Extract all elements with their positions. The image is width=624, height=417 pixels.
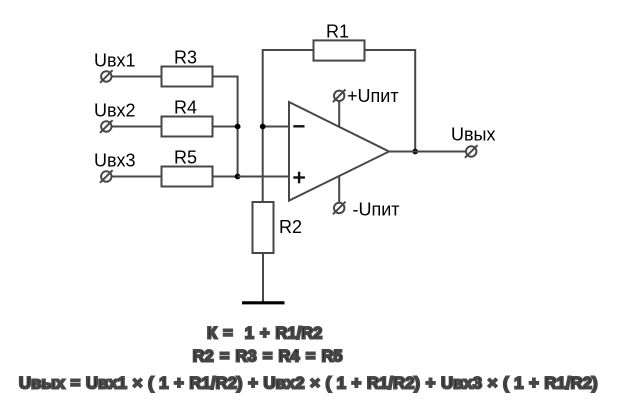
resistor R1 [314,40,365,60]
svg-text:Uвх3: Uвх3 [94,151,136,171]
svg-text:+Uпит: +Uпит [347,86,399,106]
terminal Uвх2 [100,120,113,133]
wire output [389,151,466,153]
wire R1 to output branch [365,50,416,152]
op-amp plus sign [293,172,305,184]
terminal Uвх3 [100,170,113,183]
wire R2 to ground [262,253,264,302]
svg-text:Uвх1: Uвх1 [94,51,136,71]
op-amp minus sign [293,125,304,127]
resistor R2 [253,202,274,253]
svg-text:R2: R2 [279,217,302,237]
wire negative supply [338,176,340,203]
junction bus-R4 [235,124,241,130]
svg-text:Uвых: Uвых [451,125,496,145]
svg-text:R5: R5 [174,148,197,168]
terminal Uвых [465,145,478,158]
resistor R3 [162,67,213,87]
wire inverting input [263,126,289,128]
ground [242,301,285,304]
terminal Uвх1 [100,70,113,83]
wire input3 to R5 [112,176,162,178]
wire R4 to bus [213,126,238,128]
wire positive supply [338,101,340,127]
wire R5 to bus [213,176,238,178]
svg-text:Uвых = Uвх1 × ( 1 + R1/R2) + U: Uвых = Uвх1 × ( 1 + R1/R2) + Uвх2 × ( 1 … [19,374,598,393]
wire input2 to R4 [112,126,162,128]
wire summing bus [237,127,239,177]
junction output [412,149,418,155]
resistor R4 [162,117,213,137]
wire input1 to R3 [112,76,162,78]
svg-text:R4: R4 [174,98,197,118]
junction feedback-inverting [260,124,266,130]
svg-text:Uвх2: Uвх2 [94,101,136,121]
svg-text:R1: R1 [326,22,349,42]
svg-text:-Uпит: -Uпит [353,200,400,220]
svg-text:К = 1 + R1/R2: К = 1 + R1/R2 [207,324,322,342]
op-amp U1 [289,102,389,201]
wire bus to noninverting input [238,176,289,178]
junction bus-R5 [235,174,241,180]
svg-text:R2 = R3 = R4 = R5: R2 = R3 = R4 = R5 [193,347,343,365]
svg-text:R3: R3 [174,48,197,68]
terminal -Uпит [333,202,346,215]
wire R3 to bus [213,77,238,127]
wire feedback vertical [263,50,314,202]
terminal +Uпит [333,90,346,103]
resistor R5 [162,167,213,187]
